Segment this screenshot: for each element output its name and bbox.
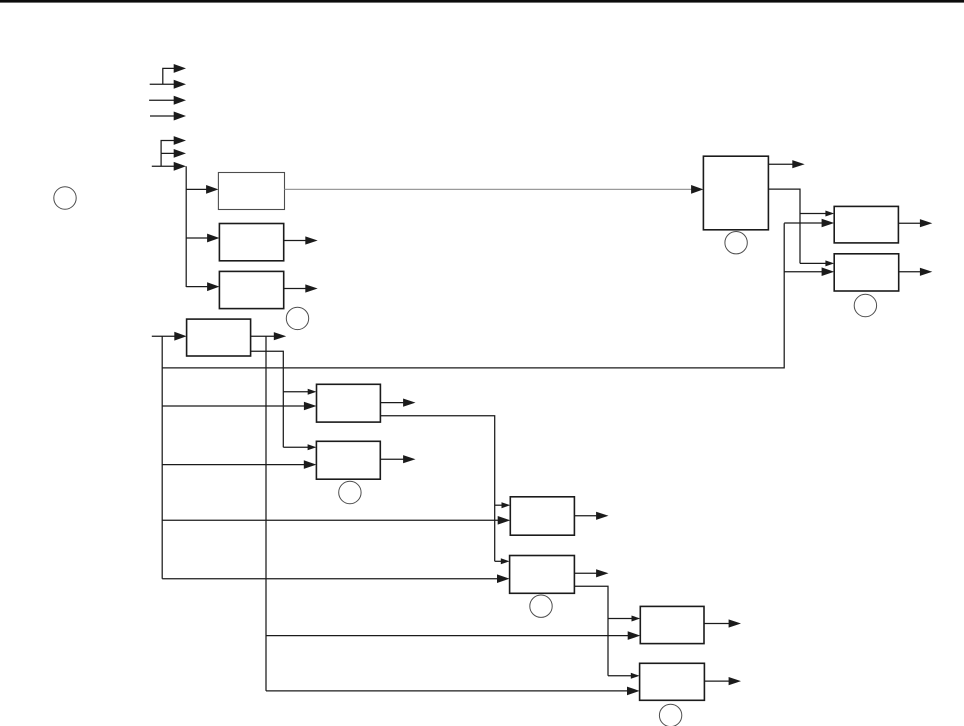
input arrow 1 (branch up from arrow 2 wire) (163, 64, 186, 84)
output arrow of block H (574, 569, 608, 577)
upper input arrow to block G (495, 502, 511, 508)
block L (834, 206, 898, 243)
input arrow 3 (149, 96, 186, 105)
block M (834, 254, 899, 291)
block C (219, 271, 283, 308)
arrow trunk to block A (186, 185, 218, 194)
callout circle below block C (286, 307, 308, 329)
wire block D bottom-right to elbow B (251, 351, 284, 447)
lower input arrow to block L (784, 219, 834, 228)
input arrowhead into block K (691, 185, 703, 194)
lower input arrow to block E (162, 402, 316, 411)
block F (316, 441, 380, 479)
lower input arrow to block M (784, 267, 834, 276)
arrow trunk to block B (186, 234, 219, 243)
left bus wire down from block D input (161, 336, 163, 579)
lower input arrow to block I (266, 631, 640, 640)
block I (640, 606, 704, 643)
input arrow 6 (161, 149, 186, 158)
upper input arrow to block H (495, 558, 510, 564)
block J (640, 663, 705, 700)
output arrow of block J (704, 677, 741, 685)
callout circle below block K (725, 232, 747, 254)
callout circle below block M (854, 294, 876, 316)
output arrow of block G (574, 512, 608, 520)
callout circle below block H (530, 595, 552, 617)
input arrow to block D (152, 332, 187, 341)
output arrow of block F (380, 455, 415, 463)
output arrow of block D (251, 332, 287, 340)
lower input arrow to block G (162, 516, 510, 525)
block A (gray box) (218, 173, 284, 210)
arrow trunk to block C (186, 282, 219, 291)
block K (tall box) (703, 156, 768, 230)
input arrow 5 (top of lower fan) (161, 136, 186, 153)
wire block H bottom-right to riser D (574, 586, 608, 676)
lower input arrow to block F (162, 460, 316, 469)
wire block E bottom-right to riser C (380, 416, 494, 562)
upper input arrow to block M (800, 260, 834, 266)
block B (219, 224, 283, 261)
bus wire A down from block D output (265, 336, 267, 691)
upper input arrow to block F (283, 444, 316, 450)
block G (510, 497, 574, 535)
trunk wire down from input arrow 7 (185, 166, 187, 287)
upper input arrow to block L (800, 211, 834, 217)
upper input arrow to block E (283, 389, 316, 395)
lower input arrow to block H (162, 574, 509, 583)
long wire to right riser (162, 223, 784, 368)
block D (187, 319, 251, 356)
input arrow 7 (feeds trunk) (152, 153, 186, 170)
lower input arrow to block J (266, 687, 640, 696)
upper input arrow to block J (608, 673, 640, 679)
block H (510, 556, 575, 594)
output arrow of block I (704, 619, 741, 627)
input arrow 4 (150, 112, 186, 121)
gray wire block A to block K (285, 188, 693, 190)
block E (317, 384, 381, 422)
input arrow 2 (150, 80, 186, 89)
callout circle left margin (54, 187, 76, 209)
output arrow of block L (898, 219, 932, 227)
upper input arrow to block I (608, 616, 640, 622)
output arrow of block C (284, 284, 318, 292)
output arrow of block E (380, 399, 415, 407)
wire block K right to riser E (768, 189, 800, 263)
output arrow of block M (899, 268, 933, 276)
callout circle below block J (659, 704, 681, 726)
callout circle below block F (339, 481, 361, 503)
output arrow top of block K (768, 160, 804, 168)
output arrow of block B (284, 236, 318, 244)
